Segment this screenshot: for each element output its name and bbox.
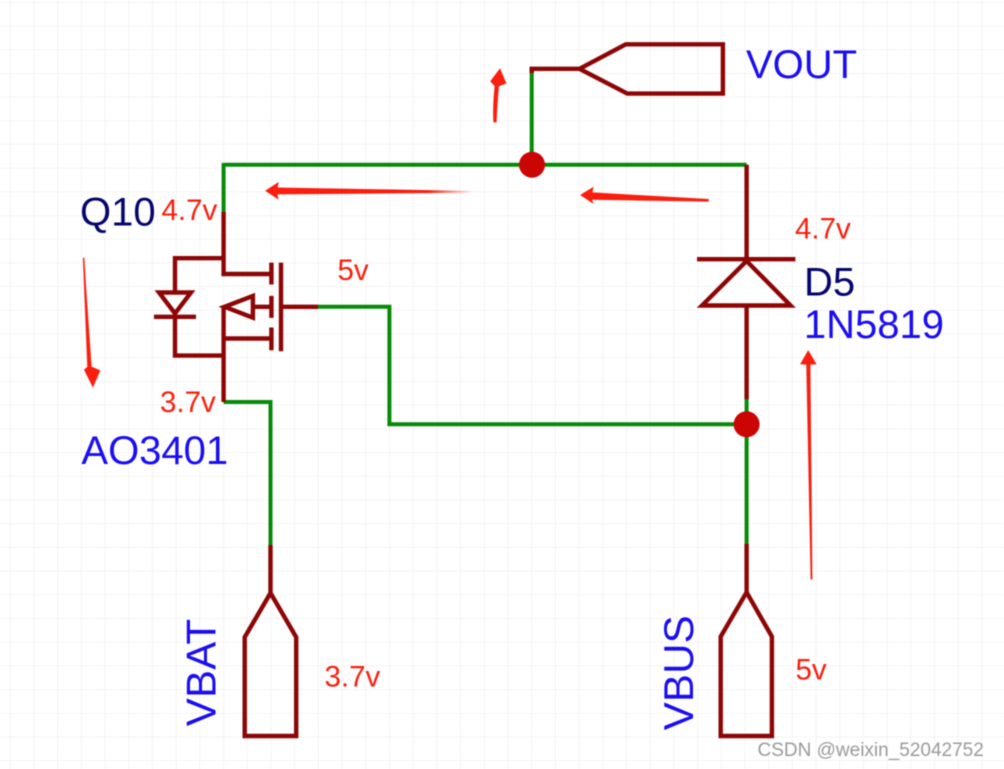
arrow mid left xyxy=(580,187,709,204)
port flag VBUS xyxy=(744,544,748,592)
diode Q10 body-diode triangle xyxy=(159,293,191,314)
wire VOUT flag drop xyxy=(530,71,534,165)
wire VOUT top bus xyxy=(224,163,747,167)
diode D5 cathode pin xyxy=(744,165,748,260)
junction node VBUS xyxy=(734,411,760,437)
wire D5 anode to VBUS xyxy=(745,397,749,546)
arrow up near VOUT xyxy=(490,68,506,122)
wire gate net xyxy=(318,307,747,425)
svg-text:5v: 5v xyxy=(338,254,369,287)
transistor Q10 gate pin xyxy=(281,305,318,309)
transistor Q10 drain pin xyxy=(224,212,272,274)
arrow up right xyxy=(800,350,817,579)
wire source to VBAT xyxy=(224,402,271,547)
transistor Q10 gate bar xyxy=(279,263,283,352)
wire drain riser xyxy=(222,163,226,214)
svg-text:3.7v: 3.7v xyxy=(325,661,381,694)
svg-text:4.7v: 4.7v xyxy=(162,194,218,227)
svg-text:3.7v: 3.7v xyxy=(160,386,216,419)
port flag VOUT xyxy=(532,69,580,73)
svg-text:4.7v: 4.7v xyxy=(795,213,851,246)
svg-text:D5: D5 xyxy=(804,261,855,305)
diode Q10 body-diode bottom lead xyxy=(175,317,224,356)
diode D5 triangle xyxy=(702,261,791,306)
junction node VOUT xyxy=(519,152,545,178)
transistor Q10 channel bars xyxy=(269,263,273,351)
diode D5 anode pin xyxy=(744,306,748,400)
svg-text:AO3401: AO3401 xyxy=(81,429,228,473)
arrow down left xyxy=(83,258,101,388)
svg-text:Q10: Q10 xyxy=(80,191,156,235)
svg-text:CSDN @weixin_52042752: CSDN @weixin_52042752 xyxy=(758,740,984,761)
port flag VBAT xyxy=(268,545,272,593)
diode D5 cathode bar xyxy=(697,257,795,261)
svg-text:VBUS: VBUS xyxy=(655,615,702,730)
transistor Q10 bulk arrow xyxy=(253,305,272,309)
svg-text:VOUT: VOUT xyxy=(746,43,857,87)
svg-text:1N5819: 1N5819 xyxy=(804,303,944,347)
arrow long left xyxy=(265,182,474,200)
diode Q10 body-diode top lead xyxy=(175,258,224,292)
transistor Q10 source pin xyxy=(224,307,272,402)
diode Q10 body-diode cathode bar xyxy=(154,315,196,319)
svg-text:VBAT: VBAT xyxy=(178,619,225,726)
svg-text:5v: 5v xyxy=(796,653,827,686)
